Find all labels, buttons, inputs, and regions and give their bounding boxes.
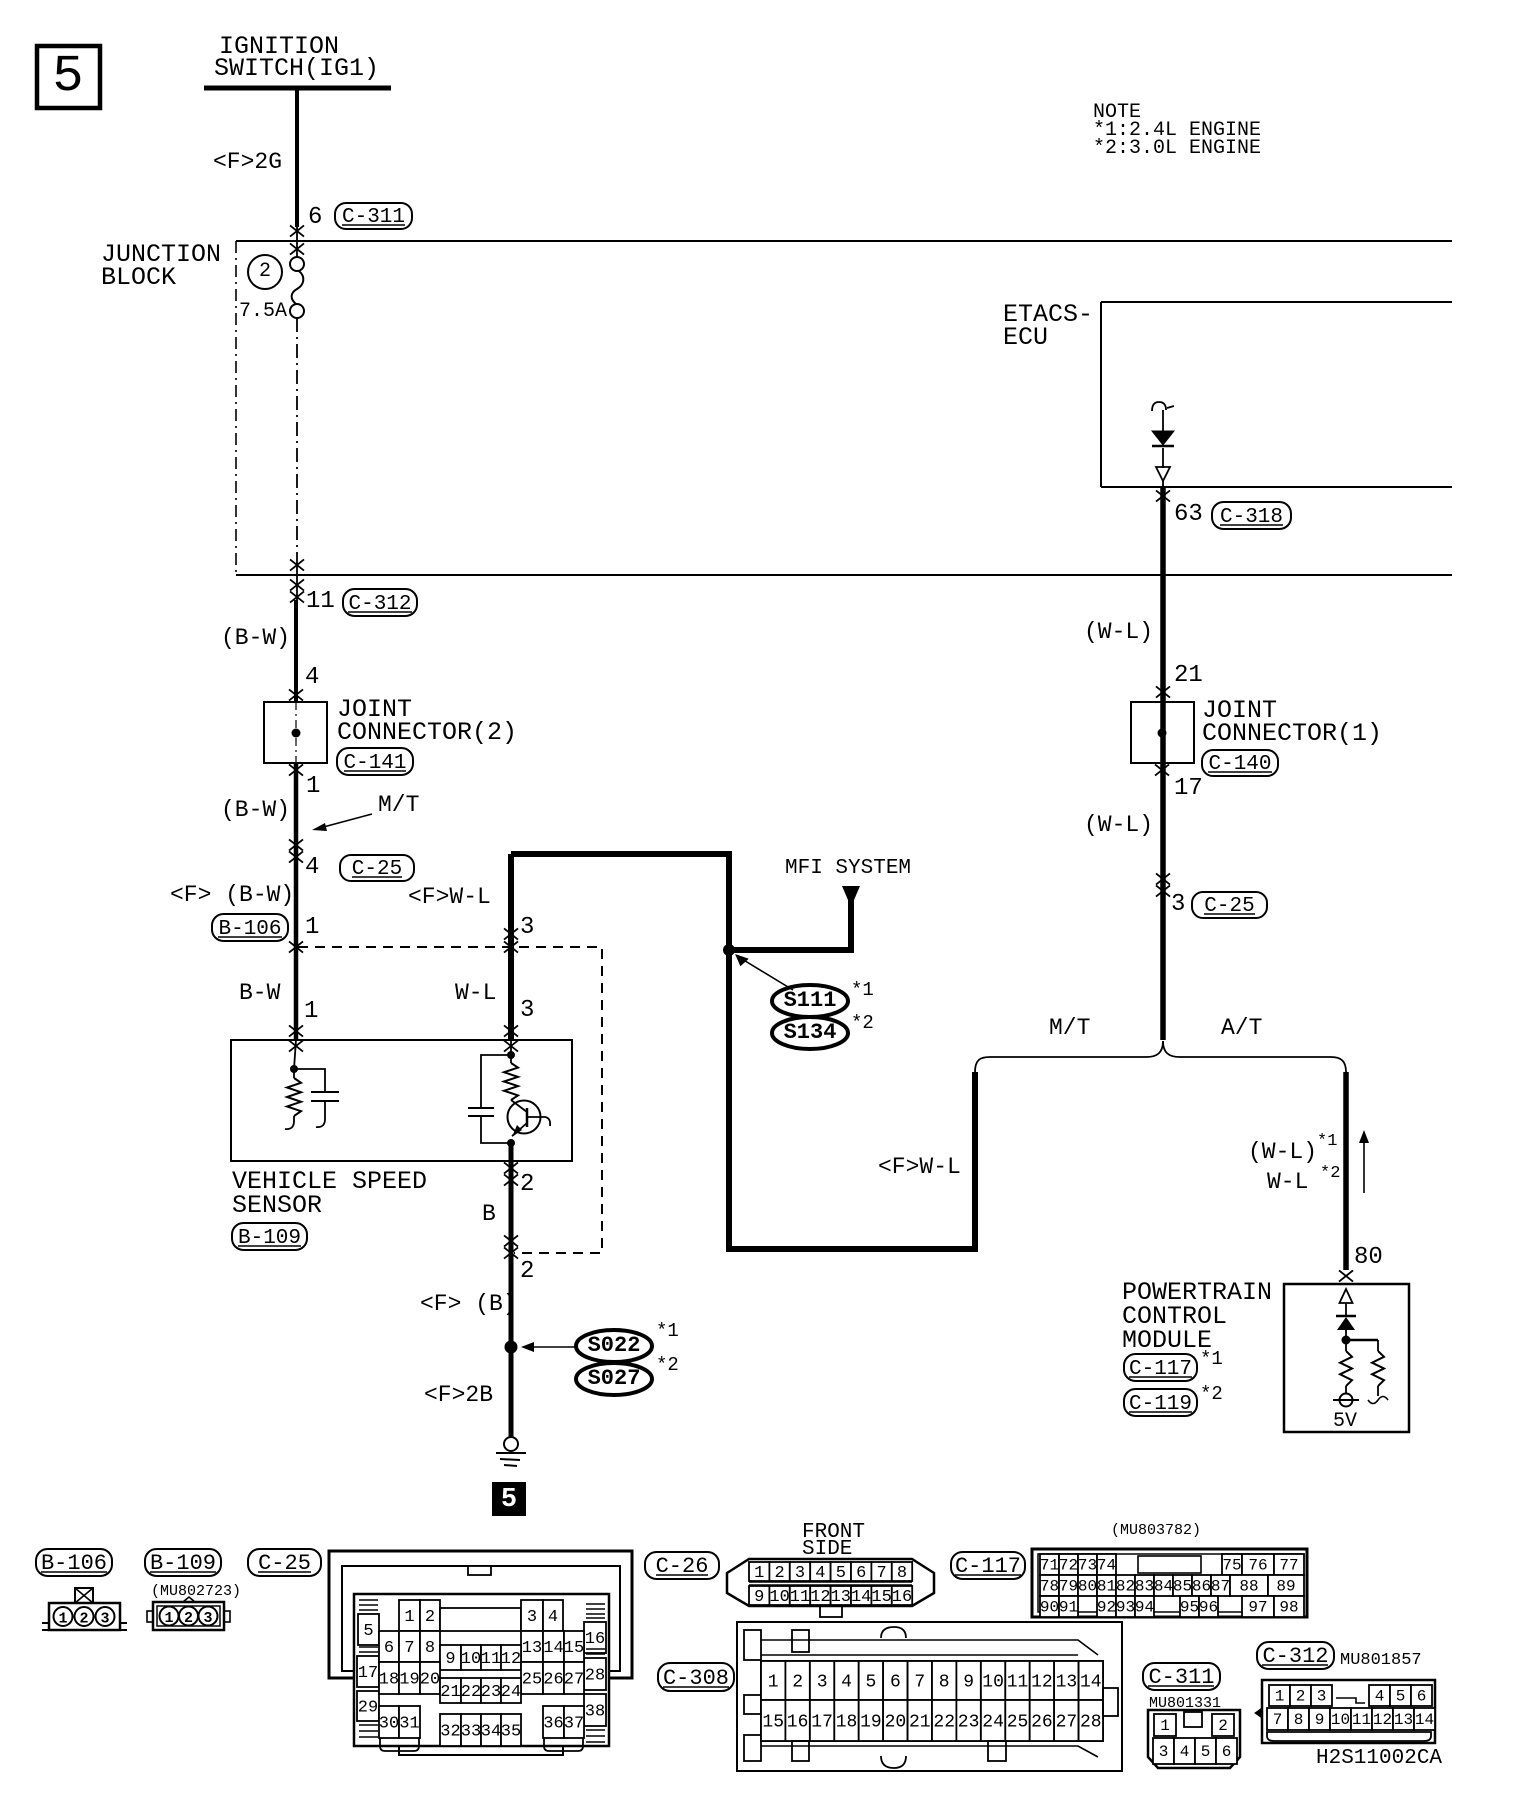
splice node	[505, 1341, 518, 1354]
svg-text:19: 19	[860, 1712, 882, 1732]
svg-text:4: 4	[841, 1672, 852, 1692]
svg-text:2: 2	[1296, 1688, 1306, 1706]
svg-text:9: 9	[1315, 1711, 1325, 1729]
svg-text:H2S11002CA: H2S11002CA	[1316, 1747, 1442, 1770]
connector C-308 drawing	[737, 1622, 1122, 1771]
svg-text:<F> (B-W): <F> (B-W)	[170, 882, 294, 908]
svg-text:90: 90	[1040, 1599, 1059, 1617]
svg-text:18: 18	[836, 1712, 858, 1732]
svg-text:5: 5	[865, 1672, 876, 1692]
splice S111	[772, 985, 848, 1017]
svg-text:10: 10	[982, 1672, 1004, 1692]
svg-text:11: 11	[1352, 1711, 1371, 1729]
svg-text:77: 77	[1279, 1557, 1298, 1575]
svg-text:1: 1	[754, 1564, 764, 1583]
S022 callout arrow	[521, 1342, 575, 1352]
svg-text:7: 7	[404, 1639, 414, 1658]
M/T callout arrow	[312, 792, 419, 831]
svg-text:1: 1	[1160, 1717, 1170, 1735]
connector C-311 drawing	[1148, 1710, 1240, 1768]
svg-text:93: 93	[1116, 1599, 1135, 1617]
svg-text:31: 31	[399, 1714, 419, 1733]
svg-text:7: 7	[914, 1672, 925, 1692]
connector B-106 drawing	[42, 1588, 127, 1630]
svg-text:33: 33	[461, 1722, 481, 1741]
svg-text:79: 79	[1059, 1578, 1078, 1596]
svg-text:38: 38	[585, 1702, 605, 1721]
svg-text:(MU803782): (MU803782)	[1111, 1522, 1201, 1539]
svg-text:88: 88	[1239, 1578, 1258, 1596]
junction block exit arrows	[290, 559, 304, 570]
wire (F)2G from ignition switch	[295, 88, 299, 227]
diode inside ETACS-ECU	[1152, 431, 1174, 446]
svg-text:6: 6	[384, 1639, 394, 1658]
svg-text:11: 11	[790, 1588, 810, 1607]
svg-text:4: 4	[548, 1608, 558, 1627]
junction block outline	[236, 241, 1452, 575]
svg-text:2: 2	[1218, 1717, 1228, 1735]
wire B-W from junction block	[294, 600, 298, 702]
ETACS-ECU box	[1101, 302, 1452, 487]
svg-text:B: B	[482, 1201, 496, 1227]
svg-text:9: 9	[445, 1650, 455, 1669]
svg-text:MODULE: MODULE	[1122, 1326, 1212, 1355]
svg-text:12: 12	[1373, 1711, 1392, 1729]
thick wire (F)W-L loop	[511, 854, 975, 1249]
connector B-109 drawing	[147, 1597, 230, 1630]
svg-text:13: 13	[831, 1588, 851, 1607]
svg-text:75: 75	[1222, 1557, 1241, 1575]
svg-text:CONNECTOR(1): CONNECTOR(1)	[1202, 719, 1382, 748]
svg-text:*1: *1	[1317, 1132, 1337, 1151]
PCM pull-up resistor	[1340, 1340, 1352, 1394]
svg-text:1: 1	[305, 914, 319, 941]
wire label (W-L)*1	[1248, 1132, 1337, 1165]
fuse number circle 2	[248, 255, 282, 289]
svg-text:4: 4	[305, 854, 319, 881]
svg-text:12: 12	[501, 1650, 521, 1669]
svg-text:M/T: M/T	[378, 792, 419, 818]
ETACS wire to diode	[1162, 410, 1164, 431]
svg-text:16: 16	[892, 1588, 912, 1607]
svg-text:83: 83	[1135, 1578, 1154, 1596]
svg-text:20: 20	[885, 1712, 907, 1732]
svg-text:11: 11	[481, 1650, 501, 1669]
svg-text:14: 14	[543, 1639, 563, 1658]
svg-text:*2: *2	[656, 1354, 679, 1376]
svg-text:CONNECTOR(2): CONNECTOR(2)	[337, 718, 517, 747]
svg-text:26: 26	[1031, 1712, 1053, 1732]
connector C-25 pin panel	[354, 1594, 609, 1755]
svg-text:9: 9	[754, 1588, 764, 1607]
svg-text:(B-W): (B-W)	[221, 625, 290, 651]
svg-text:<F>W-L: <F>W-L	[878, 1154, 961, 1180]
junction block label	[101, 240, 221, 292]
splice S134	[772, 1017, 848, 1049]
svg-text:36: 36	[543, 1714, 563, 1733]
split brace	[975, 1041, 1346, 1072]
vehicle speed sensor box	[231, 1040, 572, 1161]
note text	[1093, 101, 1261, 160]
VSS coil resistor	[285, 1069, 301, 1129]
connector label C-311 (bottom row)	[1143, 1663, 1220, 1690]
svg-text:(W-L): (W-L)	[1248, 1139, 1317, 1165]
svg-text:(W-L): (W-L)	[1084, 619, 1153, 645]
ETACS-ECU label	[1003, 300, 1093, 352]
svg-text:1: 1	[304, 998, 318, 1025]
svg-text:BLOCK: BLOCK	[101, 263, 176, 292]
svg-text:6: 6	[856, 1564, 866, 1583]
svg-text:ECU: ECU	[1003, 323, 1048, 352]
svg-text:11: 11	[1007, 1672, 1029, 1692]
svg-text:84: 84	[1154, 1578, 1173, 1596]
VSS capacitor right	[468, 1055, 511, 1143]
svg-text:22: 22	[461, 1683, 481, 1702]
svg-text:3: 3	[1171, 891, 1185, 918]
svg-text:<F>W-L: <F>W-L	[408, 884, 491, 910]
svg-text:26: 26	[543, 1670, 563, 1689]
svg-text:3: 3	[520, 997, 534, 1024]
svg-text:87: 87	[1211, 1578, 1230, 1596]
svg-text:21: 21	[909, 1712, 931, 1732]
svg-text:7: 7	[876, 1564, 886, 1583]
vehicle speed sensor labels	[232, 1167, 427, 1220]
svg-text:2: 2	[79, 1611, 88, 1628]
svg-text:29: 29	[358, 1698, 378, 1717]
page number box 5	[37, 46, 100, 108]
M/T A/T labels	[1049, 1015, 1262, 1041]
svg-text:18: 18	[379, 1670, 399, 1689]
PCM internal node	[1342, 1336, 1351, 1345]
joint connector (2) C-141	[264, 702, 327, 763]
svg-text:80: 80	[1078, 1578, 1097, 1596]
svg-text:(B-W): (B-W)	[221, 797, 290, 823]
svg-text:5: 5	[836, 1564, 846, 1583]
svg-text:12: 12	[1031, 1672, 1053, 1692]
svg-text:95: 95	[1180, 1599, 1199, 1617]
VSS left capacitor	[294, 1069, 339, 1127]
connector label C-25 (bottom row)	[248, 1549, 321, 1576]
svg-text:94: 94	[1135, 1599, 1154, 1617]
svg-text:2: 2	[259, 260, 271, 283]
svg-text:10: 10	[1331, 1711, 1350, 1729]
svg-text:M/T: M/T	[1049, 1015, 1090, 1041]
connector label C-26 (bottom row)	[645, 1552, 719, 1579]
svg-text:8: 8	[425, 1639, 435, 1658]
svg-text:63: 63	[1174, 501, 1203, 528]
svg-text:23: 23	[958, 1712, 980, 1732]
svg-text:13: 13	[1056, 1672, 1078, 1692]
svg-text:28: 28	[585, 1666, 605, 1685]
svg-text:1: 1	[58, 1611, 67, 1628]
svg-text:8: 8	[897, 1564, 907, 1583]
VSS output transistor	[508, 1100, 551, 1137]
ignition switch (IG1) label	[214, 32, 379, 83]
svg-text:76: 76	[1248, 1557, 1267, 1575]
svg-text:W-L: W-L	[455, 980, 496, 1006]
svg-text:MU801857: MU801857	[1340, 1651, 1422, 1670]
powertrain control module box	[1284, 1284, 1409, 1432]
svg-text:16: 16	[787, 1712, 809, 1732]
svg-text:SWITCH(IG1): SWITCH(IG1)	[214, 54, 379, 83]
svg-text:17: 17	[358, 1664, 378, 1683]
svg-text:3: 3	[100, 1611, 109, 1628]
svg-text:SENSOR: SENSOR	[232, 1191, 322, 1220]
svg-text:27: 27	[1056, 1712, 1078, 1732]
svg-text:10: 10	[769, 1588, 789, 1607]
svg-text:8: 8	[939, 1672, 950, 1692]
ignition switch bus bar	[204, 86, 391, 91]
VSS left node	[290, 1065, 298, 1073]
svg-text:6: 6	[308, 204, 322, 231]
svg-text:12: 12	[810, 1588, 830, 1607]
svg-text:11: 11	[306, 588, 335, 615]
svg-text:73: 73	[1078, 1557, 1097, 1575]
PCM second resistor	[1368, 1340, 1388, 1404]
connector label B-109 (bottom row)	[145, 1549, 221, 1576]
svg-text:5: 5	[1201, 1743, 1211, 1761]
wire inside junction block (dash-dot)	[296, 318, 298, 556]
svg-text:A/T: A/T	[1221, 1015, 1262, 1041]
svg-text:*2:3.0L ENGINE: *2:3.0L ENGINE	[1093, 137, 1261, 160]
svg-text:78: 78	[1040, 1578, 1059, 1596]
svg-text:74: 74	[1097, 1557, 1116, 1575]
svg-text:3: 3	[1317, 1688, 1327, 1706]
svg-text:91: 91	[1059, 1599, 1078, 1617]
svg-text:4: 4	[305, 664, 319, 691]
svg-text:1: 1	[164, 1610, 173, 1627]
svg-text:<F>2B: <F>2B	[424, 1382, 493, 1408]
svg-text:3: 3	[817, 1672, 828, 1692]
svg-text:*1: *1	[1200, 1348, 1223, 1370]
svg-text:81: 81	[1097, 1578, 1116, 1596]
ETACS internal coil curl	[1152, 402, 1174, 411]
svg-text:<F>2G: <F>2G	[213, 149, 282, 175]
svg-text:2: 2	[425, 1608, 435, 1627]
svg-text:7: 7	[1273, 1711, 1283, 1729]
svg-text:6: 6	[1417, 1688, 1427, 1706]
svg-text:19: 19	[399, 1670, 419, 1689]
svg-text:6: 6	[1222, 1743, 1232, 1761]
svg-text:24: 24	[501, 1683, 521, 1702]
wire label W-L*2	[1267, 1164, 1340, 1195]
svg-text:71: 71	[1040, 1557, 1059, 1575]
ground reference box 5	[492, 1482, 526, 1516]
svg-text:2: 2	[792, 1672, 803, 1692]
svg-text:S134: S134	[784, 1020, 837, 1045]
S111 splice callout arrow	[734, 954, 793, 990]
splice S022	[576, 1330, 652, 1362]
svg-text:13: 13	[1394, 1711, 1413, 1729]
svg-text:96: 96	[1199, 1599, 1218, 1617]
MFI SYSTEM arrow	[842, 886, 860, 900]
svg-text:2: 2	[184, 1610, 193, 1627]
svg-text:30: 30	[379, 1714, 399, 1733]
svg-text:80: 80	[1354, 1244, 1383, 1271]
VSS bottom node	[507, 1139, 515, 1147]
VSS right node top	[507, 1051, 515, 1059]
PCM input open triangle	[1340, 1289, 1353, 1303]
PCM labels	[1122, 1278, 1272, 1355]
svg-text:13: 13	[522, 1639, 542, 1658]
svg-text:98: 98	[1279, 1599, 1298, 1617]
svg-text:4: 4	[1375, 1688, 1385, 1706]
svg-text:3: 3	[795, 1564, 805, 1583]
svg-text:1: 1	[1275, 1688, 1285, 1706]
svg-text:S027: S027	[588, 1366, 641, 1391]
svg-text:4: 4	[1180, 1743, 1190, 1761]
C-25 pins	[357, 1600, 606, 1751]
junction node S111/S134	[723, 944, 735, 956]
wire W-L A/T branch	[1343, 1072, 1349, 1270]
svg-text:15: 15	[564, 1639, 584, 1658]
connector label C-117 (bottom row)	[951, 1552, 1025, 1579]
ETACS output open arrow	[1156, 448, 1170, 487]
wire W-L from ETACS-ECU pin 63	[1160, 487, 1166, 1040]
joint connector (2) labels	[337, 695, 517, 747]
svg-text:3: 3	[1159, 1743, 1169, 1761]
svg-text:9: 9	[963, 1672, 974, 1692]
svg-text:25: 25	[522, 1670, 542, 1689]
joint connector (1) labels	[1202, 696, 1382, 748]
connector label C-312 (bottom row)	[1257, 1642, 1334, 1669]
svg-text:*1: *1	[851, 979, 874, 1001]
svg-text:10: 10	[461, 1650, 481, 1669]
svg-text:2: 2	[774, 1564, 784, 1583]
svg-text:1: 1	[768, 1672, 779, 1692]
svg-text:1: 1	[404, 1608, 414, 1627]
connector label C-308 (bottom row)	[658, 1663, 734, 1691]
svg-text:28: 28	[1080, 1712, 1102, 1732]
svg-text:MFI SYSTEM: MFI SYSTEM	[785, 857, 911, 880]
wire from VSS bottom	[509, 1143, 514, 1437]
svg-text:82: 82	[1116, 1578, 1135, 1596]
svg-text:*2: *2	[1320, 1164, 1340, 1183]
svg-text:24: 24	[982, 1712, 1004, 1732]
FRONT SIDE label	[802, 1521, 865, 1561]
connector C-117 drawing	[1032, 1549, 1307, 1617]
svg-text:25: 25	[1007, 1712, 1029, 1732]
svg-text:27: 27	[564, 1670, 584, 1689]
svg-text:89: 89	[1276, 1578, 1295, 1596]
svg-text:(MU802723): (MU802723)	[151, 1583, 241, 1600]
VSS pull-up resistor	[504, 1063, 518, 1100]
svg-text:86: 86	[1192, 1578, 1211, 1596]
svg-text:SIDE: SIDE	[802, 1538, 852, 1561]
connector C-312 drawing	[1255, 1680, 1435, 1743]
svg-text:*2: *2	[851, 1012, 874, 1034]
svg-text:*1: *1	[656, 1320, 679, 1342]
svg-text:5: 5	[363, 1622, 373, 1641]
svg-text:S022: S022	[588, 1333, 641, 1358]
svg-text:32: 32	[440, 1722, 460, 1741]
connector arrow into junction block	[290, 225, 304, 236]
svg-text:85: 85	[1173, 1578, 1192, 1596]
svg-text:2: 2	[520, 1171, 534, 1198]
svg-text:6: 6	[890, 1672, 901, 1692]
svg-text:20: 20	[420, 1670, 440, 1689]
connector C-25 housing	[329, 1551, 632, 1678]
PCM clamp diode	[1336, 1316, 1356, 1330]
connector label C-318	[1212, 502, 1291, 529]
direction arrow up	[1359, 1130, 1369, 1193]
wire B-W below joint connector	[294, 763, 299, 1040]
svg-text:97: 97	[1248, 1599, 1267, 1617]
ground symbol	[496, 1437, 526, 1466]
connector label C-311	[335, 203, 412, 229]
svg-text:14: 14	[1080, 1672, 1102, 1692]
svg-text:5: 5	[52, 47, 83, 106]
MFI SYSTEM branch wire	[729, 897, 851, 950]
svg-text:3: 3	[527, 1608, 537, 1627]
svg-text:72: 72	[1059, 1557, 1078, 1575]
svg-text:5: 5	[501, 1485, 517, 1515]
svg-text:2: 2	[520, 1258, 534, 1285]
svg-text:S111: S111	[784, 988, 837, 1013]
svg-text:37: 37	[564, 1714, 584, 1733]
svg-text:<F> (B): <F> (B)	[420, 1291, 517, 1317]
svg-text:3: 3	[203, 1610, 212, 1627]
dashed boundary of sensor harness	[298, 947, 602, 1253]
svg-text:5V: 5V	[1333, 1410, 1357, 1433]
svg-text:4: 4	[815, 1564, 825, 1583]
svg-text:15: 15	[871, 1588, 891, 1607]
svg-text:3: 3	[520, 914, 534, 941]
svg-text:(W-L): (W-L)	[1084, 812, 1153, 838]
svg-text:21: 21	[1174, 662, 1203, 689]
joint connector (1) C-140	[1131, 702, 1194, 763]
svg-text:17: 17	[811, 1712, 833, 1732]
svg-text:92: 92	[1097, 1599, 1116, 1617]
connector C-26 drawing	[727, 1559, 934, 1617]
svg-text:7.5A: 7.5A	[239, 300, 287, 323]
svg-text:14: 14	[851, 1588, 871, 1607]
svg-text:35: 35	[501, 1722, 521, 1741]
svg-text:15: 15	[762, 1712, 784, 1732]
connector label B-106	[212, 914, 288, 941]
svg-text:16: 16	[585, 1630, 605, 1649]
splice S027	[576, 1363, 652, 1395]
svg-text:22: 22	[933, 1712, 955, 1732]
svg-text:34: 34	[481, 1722, 501, 1741]
connector label B-106 (bottom row)	[36, 1549, 112, 1576]
svg-text:21: 21	[440, 1683, 460, 1702]
svg-text:W-L: W-L	[1267, 1169, 1308, 1195]
svg-text:5: 5	[1396, 1688, 1406, 1706]
svg-text:1: 1	[306, 773, 320, 800]
svg-text:B-W: B-W	[239, 980, 281, 1006]
wire W-L down to sensor	[508, 854, 514, 1040]
svg-text:14: 14	[1415, 1711, 1434, 1729]
svg-text:*2: *2	[1200, 1383, 1223, 1405]
5V source symbol	[1333, 1394, 1359, 1407]
svg-text:8: 8	[1294, 1711, 1304, 1729]
svg-text:17: 17	[1174, 775, 1203, 802]
svg-text:23: 23	[481, 1683, 501, 1702]
fuse 7.5A	[239, 257, 304, 323]
